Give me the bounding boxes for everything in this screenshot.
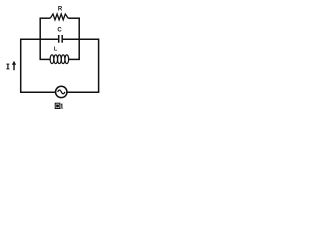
wire L branch right lead <box>69 58 80 60</box>
svg-text:L: L <box>54 46 58 52</box>
figure label strokes inside 图 <box>56 104 59 107</box>
wire bottom right segment <box>67 91 100 93</box>
wire inner right rail <box>78 18 80 60</box>
resistor R zigzag <box>50 14 68 20</box>
inductor L coil loop 1 <box>50 55 54 64</box>
wire outer right vertical <box>98 39 100 93</box>
AC source G1 circle <box>56 86 67 97</box>
current arrow I head <box>12 61 16 65</box>
svg-text:1: 1 <box>60 102 64 111</box>
wire bottom left segment <box>20 91 56 93</box>
capacitor C right plate <box>61 35 63 43</box>
label I stem <box>7 64 9 69</box>
wire middle branch right segment <box>63 38 99 40</box>
svg-text:R: R <box>58 7 63 13</box>
wire inner left rail <box>39 18 41 60</box>
wire R branch left lead <box>40 17 51 19</box>
capacitor C left plate <box>58 35 60 43</box>
wire middle branch left segment <box>21 38 58 40</box>
inductor L coil loop 4 <box>61 55 65 64</box>
label I bottom serif <box>6 68 9 70</box>
inductor L coil loop 5 <box>65 55 69 64</box>
inductor L coil loop 2 <box>54 55 58 64</box>
wire L branch left lead <box>40 58 51 60</box>
wire R branch right lead <box>68 17 80 19</box>
figure label box of 图 <box>55 103 60 108</box>
AC source sine wave <box>58 90 65 94</box>
wire outer left vertical <box>20 39 22 93</box>
current arrow I shaft <box>13 63 15 71</box>
label I top serif <box>6 63 9 65</box>
inductor L coil loop 3 <box>58 55 62 64</box>
svg-text:C: C <box>57 27 62 33</box>
